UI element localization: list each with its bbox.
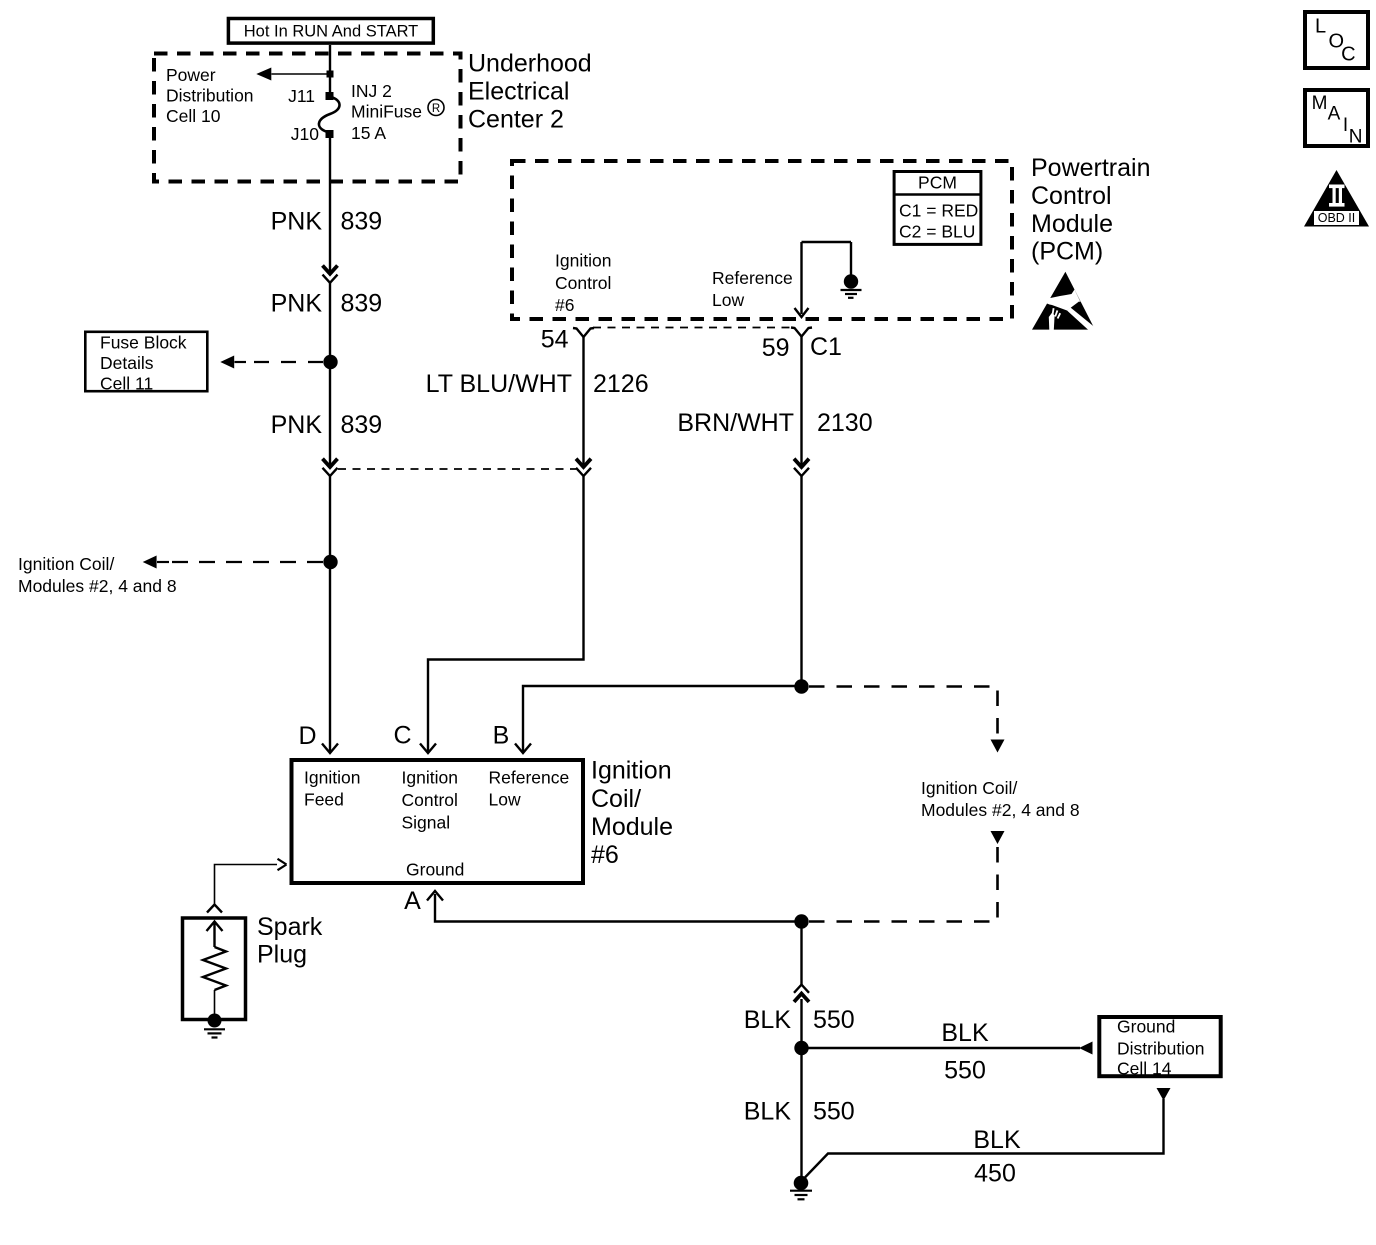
- svg-text:PCM: PCM: [918, 173, 957, 193]
- svg-text:Ground: Ground: [406, 860, 464, 880]
- wire: dashed branch to other coil modules (top): [809, 687, 998, 738]
- svg-text:N: N: [1349, 127, 1363, 148]
- svg-text:(PCM): (PCM): [1031, 238, 1103, 266]
- svg-text:Reference: Reference: [489, 768, 570, 788]
- wire: BRN/WHT down to junction: [800, 476, 802, 686]
- ground: G103 engine ground: [790, 1176, 812, 1200]
- svg-text:Fuse Block: Fuse Block: [100, 332, 187, 352]
- wire: PNK 839 from J10 down to in-line connector: [329, 137, 331, 273]
- svg-text:OBD II: OBD II: [1318, 211, 1356, 225]
- svg-text:Hot In RUN And START: Hot In RUN And START: [244, 23, 419, 41]
- arrow: to Power Distribution Cell 10: [256, 68, 271, 81]
- svg-text:2126: 2126: [593, 370, 649, 398]
- svg-text:BLK: BLK: [744, 1098, 792, 1126]
- svg-text:Power: Power: [166, 65, 216, 85]
- arrow: spark gap arrow inside plug: [207, 922, 223, 948]
- svg-text:#6: #6: [591, 841, 619, 869]
- resistor: spark plug resistive element: [203, 947, 226, 990]
- svg-text:Ignition: Ignition: [304, 768, 360, 788]
- arrow: wire into coil pin A (ground): [427, 891, 443, 901]
- svg-text:A: A: [1328, 104, 1341, 125]
- node: junction to Ground Distribution: [794, 1041, 808, 1055]
- svg-text:Coil/: Coil/: [591, 785, 641, 813]
- component: Ignition Coil/Module #6 box: [292, 760, 584, 883]
- svg-text:839: 839: [341, 208, 383, 236]
- svg-text:Control: Control: [1031, 182, 1112, 210]
- arrow: BLK 450 from Ground Distribution: [1157, 1088, 1171, 1101]
- wire: BLK 550 down to ground: [800, 1048, 802, 1183]
- svg-text:Underhood: Underhood: [468, 50, 592, 78]
- node: junction to Fuse Block Details: [323, 355, 337, 369]
- svg-text:BLK: BLK: [973, 1126, 1021, 1154]
- svg-text:Ignition: Ignition: [402, 768, 458, 788]
- svg-text:Center 2: Center 2: [468, 106, 564, 134]
- label: Ignition Control Signal (pin C): [402, 768, 458, 833]
- component: Underhood Electrical Center 2 (dashed enclosure): [154, 54, 461, 182]
- label: Reference Low (PCM internal): [712, 268, 793, 310]
- svg-text:I: I: [1343, 115, 1348, 136]
- node: Hot In RUN And START feed box: [228, 19, 433, 44]
- label: Ignition Coil / Modules 2, 4 and 8 (right): [921, 778, 1080, 820]
- svg-text:Powertrain: Powertrain: [1031, 154, 1151, 182]
- svg-text:Reference: Reference: [712, 268, 793, 288]
- component: PCM connector legend box: [894, 172, 981, 245]
- wire: connector row tie line (dashed): [338, 468, 576, 470]
- svg-text:550: 550: [813, 1098, 855, 1126]
- label: Powertrain Control Module (PCM): [1031, 154, 1151, 266]
- svg-text:LT BLU/WHT: LT BLU/WHT: [426, 370, 572, 398]
- fuse F1: INJ 2 MiniFuse 15 A (element S-curve): [319, 97, 340, 132]
- label: Power Distribution Cell 10: [166, 65, 254, 126]
- svg-text:C: C: [1341, 44, 1355, 66]
- wire: BLK 450 run to ground point: [803, 1099, 1164, 1180]
- arrow: wire into coil pin B: [515, 744, 531, 754]
- svg-text:15 A: 15 A: [351, 123, 386, 143]
- wire: LT BLU/WHT 2126 from pin 54: [582, 337, 584, 467]
- wire: coil output to spark plug: [215, 865, 278, 904]
- connector: in-line connector on PNK wire: [323, 266, 338, 283]
- svg-text:PNK: PNK: [271, 411, 323, 439]
- icon: MAIN index box: [1305, 90, 1368, 148]
- svg-text:C2 = BLU: C2 = BLU: [899, 222, 975, 242]
- svg-text:M: M: [1312, 93, 1328, 114]
- label: Ignition Control #6 (PCM internal): [555, 251, 611, 316]
- svg-text:C1 = RED: C1 = RED: [899, 201, 978, 221]
- svg-text:Feed: Feed: [304, 790, 344, 810]
- svg-text:R: R: [432, 103, 440, 115]
- svg-text:Control: Control: [402, 790, 458, 810]
- svg-text:BLK: BLK: [744, 1006, 792, 1034]
- svg-text:Electrical: Electrical: [468, 78, 569, 106]
- label: Reference Low (pin B): [489, 768, 570, 810]
- arrow: to Ignition Coil Modules (left): [143, 556, 157, 569]
- wire: PNK 839 down to coil pin D: [329, 476, 331, 752]
- arrow: out of Ignition Coil Modules label (bottom): [991, 831, 1005, 844]
- connector: in-line connector on BLK wire: [794, 985, 809, 1002]
- wire: dashed reference to Fuse Block Details: [254, 361, 326, 363]
- svg-text:PNK: PNK: [271, 208, 323, 236]
- arrow: PCM internal wire into pin 59: [795, 308, 809, 317]
- node: tap junction to Power Distribution: [327, 71, 334, 78]
- wire: dashed branch from other coil modules (bottom): [809, 847, 998, 922]
- svg-text:Signal: Signal: [402, 812, 451, 832]
- node: J10 terminal: [326, 130, 334, 138]
- svg-text:B: B: [493, 722, 510, 750]
- svg-text:Ignition: Ignition: [591, 757, 672, 785]
- svg-text:BLK: BLK: [941, 1019, 989, 1047]
- svg-text:MiniFuse: MiniFuse: [351, 102, 422, 122]
- wire: dashed reference to Ignition Coil Modules: [172, 561, 326, 563]
- svg-text:Spark: Spark: [257, 913, 323, 941]
- component: Spark Plug box: [183, 918, 246, 1020]
- wire: resistor to plug shell ground: [214, 990, 216, 1015]
- svg-text:550: 550: [944, 1057, 986, 1085]
- svg-text:Ignition: Ignition: [555, 251, 611, 271]
- svg-text:Cell 11: Cell 11: [100, 373, 153, 393]
- svg-text:Cell 10: Cell 10: [166, 106, 221, 126]
- svg-text:59: 59: [762, 334, 790, 362]
- svg-text:Control: Control: [555, 273, 611, 293]
- wire label: BLK 550 (upper): [744, 1006, 855, 1034]
- wire: PNK 839 segment 2: [329, 283, 331, 467]
- svg-text:Low: Low: [489, 790, 521, 810]
- component: Fuse Block Details Cell 11 reference box: [85, 332, 207, 394]
- wire: connector C1 face line (dashed): [593, 327, 795, 329]
- pin 59: PCM connector terminal: [791, 328, 812, 337]
- label: Ignition Coil/ Module #6: [591, 757, 673, 870]
- svg-text:54: 54: [541, 326, 569, 354]
- svg-text:Module: Module: [591, 813, 673, 841]
- arrow: wire into coil pin C: [420, 744, 436, 754]
- label: Spark Plug: [257, 913, 323, 968]
- wire label: PNK 839 (segment 3): [271, 411, 383, 439]
- node: junction of coil ground net: [794, 914, 808, 928]
- wire label: BLK 550 (horizontal branch): [941, 1019, 989, 1085]
- svg-text:#6: #6: [555, 295, 574, 315]
- svg-text:839: 839: [341, 290, 383, 318]
- svg-text:Modules #2, 4 and 8: Modules #2, 4 and 8: [18, 576, 177, 596]
- wire: LT BLU/WHT down and over to coil pin C: [428, 476, 584, 752]
- arrow: into Ignition Coil Modules label (top): [991, 740, 1005, 753]
- svg-text:L: L: [1315, 16, 1326, 38]
- svg-text:Plug: Plug: [257, 941, 307, 969]
- wire: coil ground pin A to junction: [435, 894, 802, 922]
- icon: OBD II symbol: [1304, 170, 1369, 227]
- svg-text:J10: J10: [291, 124, 319, 144]
- wire: PCM internal reference-low to ground: [800, 242, 802, 314]
- label: Ignition Feed (pin D): [304, 768, 360, 810]
- svg-text:PNK: PNK: [271, 290, 323, 318]
- svg-text:J11: J11: [288, 86, 315, 106]
- connector: coil high-tension output (female half): [278, 859, 287, 870]
- svg-text:D: D: [298, 722, 316, 750]
- svg-text:C: C: [393, 722, 411, 750]
- svg-text:Ignition Coil/: Ignition Coil/: [18, 554, 114, 574]
- label: Ignition Coil / Modules 2, 4 and 8 (left): [18, 554, 177, 596]
- wire: tap line to Power Distribution arrow: [272, 73, 328, 75]
- wire label: PNK 839 (segment 2): [271, 290, 383, 318]
- svg-text:550: 550: [813, 1006, 855, 1034]
- wire label: BLK 450: [973, 1126, 1021, 1188]
- wire label: BRN/WHT 2130: [677, 409, 872, 437]
- svg-text:C1: C1: [810, 333, 842, 361]
- svg-text:839: 839: [341, 411, 383, 439]
- wire: BRN/WHT 2130 from pin 59: [800, 337, 802, 467]
- connector: spark plug terminal (male half): [207, 905, 222, 913]
- wire: BLK 550 branch to Ground Distribution: [802, 1047, 1081, 1049]
- svg-text:Modules #2, 4 and 8: Modules #2, 4 and 8: [921, 800, 1080, 820]
- svg-text:INJ 2: INJ 2: [351, 81, 392, 101]
- wire: BLK 550 to junction: [800, 999, 802, 1048]
- wire label: BLK 550 (lower): [744, 1098, 855, 1126]
- svg-text:Ground: Ground: [1117, 1016, 1175, 1036]
- wire label: PNK 839 (segment 1): [271, 208, 383, 236]
- arrow: wire into coil pin D: [322, 744, 338, 754]
- svg-text:Distribution: Distribution: [166, 85, 254, 105]
- ground: spark plug shell ground: [204, 1014, 225, 1038]
- svg-text:BRN/WHT: BRN/WHT: [677, 409, 794, 437]
- icon: ESD sensitive device symbol: [1032, 272, 1096, 331]
- svg-text:Low: Low: [712, 290, 744, 310]
- svg-text:Ignition Coil/: Ignition Coil/: [921, 778, 1017, 798]
- connector: in-line connector on PNK wire (harness splice row): [323, 459, 338, 476]
- svg-text:A: A: [404, 887, 421, 915]
- svg-text:2130: 2130: [817, 409, 873, 437]
- node: junction to Ignition Coil Modules 2,4,8: [323, 555, 337, 569]
- arrow: Ground Distribution branch head: [1079, 1042, 1093, 1055]
- svg-text:450: 450: [974, 1160, 1016, 1188]
- pin 54: PCM connector terminal: [573, 328, 594, 337]
- wire: feed from Hot box down to fuse J11: [329, 45, 331, 93]
- component: Ground Distribution Cell 14 reference box: [1099, 1016, 1220, 1078]
- svg-text:Distribution: Distribution: [1117, 1038, 1205, 1058]
- wire: ground net down to in-line connector: [800, 922, 802, 985]
- node: J11 terminal: [326, 92, 334, 100]
- icon: LOC index box: [1305, 12, 1368, 68]
- svg-text:Cell 14: Cell 14: [1117, 1058, 1172, 1078]
- wire label: LT BLU/WHT 2126: [426, 370, 649, 398]
- connector: in-line connector on LT BLU/WHT wire: [576, 459, 591, 476]
- svg-text:Module: Module: [1031, 210, 1113, 238]
- arrow: to Fuse Block Details: [220, 356, 234, 369]
- ground: PCM internal ground: [841, 274, 862, 298]
- connector: in-line connector on BRN/WHT wire: [794, 459, 809, 476]
- label: INJ 2 MiniFuse (R) 15 A: [351, 81, 444, 143]
- label: Underhood Electrical Center 2: [468, 50, 592, 134]
- component: Powertrain Control Module (dashed enclosure): [512, 161, 1012, 319]
- svg-text:Details: Details: [100, 353, 154, 373]
- wire: reference low over to coil pin B: [523, 686, 802, 752]
- node: junction of reference low net: [794, 679, 808, 693]
